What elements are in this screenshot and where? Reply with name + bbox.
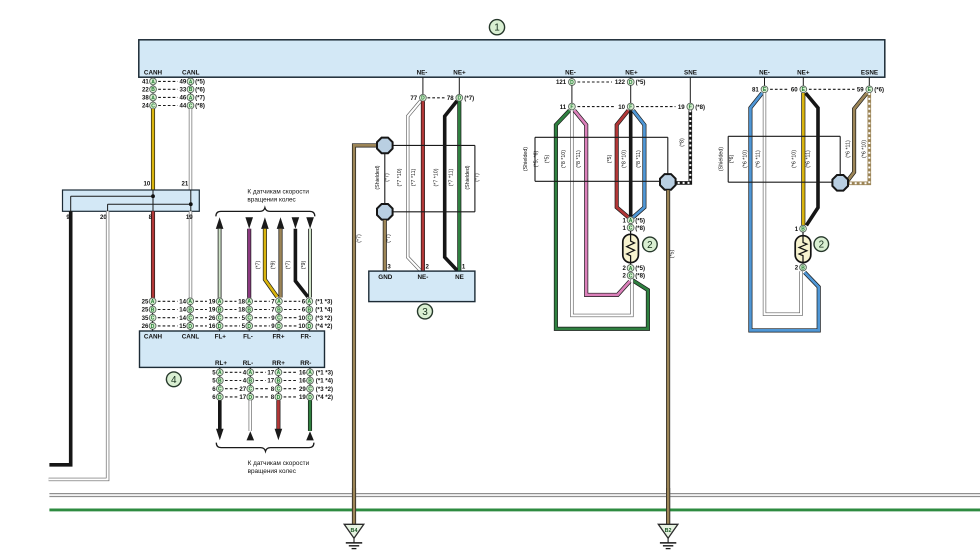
svg-text:(*7): (*7) (286, 261, 292, 270)
svg-text:FL+: FL+ (215, 334, 227, 341)
wire RL- white (to wheel speed sensor) (247, 400, 255, 440)
svg-text:B: B (247, 307, 251, 313)
svg-text:17: 17 (267, 378, 274, 385)
svg-text:(*7): (*7) (356, 234, 362, 243)
wire NE- blue (*6 *10) loop to sensor pin2 (750, 93, 818, 330)
svg-text:B: B (801, 227, 805, 233)
svg-text:(*5): (*5) (635, 217, 645, 224)
svg-text:D: D (277, 324, 281, 330)
svg-text:C: C (247, 316, 251, 322)
svg-text:10: 10 (618, 104, 625, 111)
svg-text:GND: GND (378, 274, 392, 281)
svg-text:C: C (151, 103, 155, 109)
svg-text:(*5): (*5) (670, 250, 676, 259)
svg-text:A: A (218, 370, 222, 376)
svg-text:A: A (307, 299, 311, 305)
svg-text:81: 81 (752, 87, 759, 94)
svg-text:2: 2 (647, 240, 652, 251)
ground B2 (658, 524, 678, 538)
svg-text:35: 35 (142, 315, 149, 322)
svg-text:C: C (307, 316, 311, 322)
svg-text:CANL: CANL (182, 70, 200, 77)
svg-text:D: D (248, 395, 252, 401)
svg-text:NE-: NE- (417, 274, 428, 281)
svg-text:(*5): (*5) (607, 155, 613, 164)
svg-text:A: A (247, 299, 251, 305)
svg-text:NE+: NE+ (453, 70, 466, 77)
svg-text:16: 16 (209, 323, 216, 330)
wire FL+ light green (to wheel speed sensor) (216, 217, 224, 298)
svg-text:(*8 *10): (*8 *10) (621, 150, 627, 168)
svg-text:D: D (629, 80, 633, 86)
svg-text:A: A (218, 299, 222, 305)
ABS skid control ECU box component 4 (140, 331, 325, 367)
wire FR+ yellow (*7) (255, 217, 277, 297)
svg-text:4: 4 (171, 375, 177, 386)
svg-text:(*5, *6): (*5, *6) (534, 151, 540, 168)
svg-text:21: 21 (182, 180, 189, 187)
svg-text:(*1 *4): (*1 *4) (315, 307, 332, 314)
svg-text:A: A (277, 299, 281, 305)
text to wheel speed sensors (top) (247, 189, 309, 204)
brace to wheel speed sensors (bottom) (216, 443, 314, 452)
svg-text:2: 2 (819, 240, 824, 251)
wire ESNE brown (*6 *11) (846, 93, 867, 182)
svg-text:B: B (188, 307, 192, 313)
svg-text:вращения колес: вращения колес (248, 468, 297, 475)
wire NE- white (*7 *10) (408, 101, 421, 271)
callout 4 (ABS actuator) (166, 372, 181, 387)
svg-text:19: 19 (209, 299, 216, 306)
svg-text:NE: NE (455, 274, 464, 281)
svg-text:27: 27 (239, 386, 246, 393)
svg-text:C: C (629, 226, 633, 232)
svg-text:RR+: RR+ (272, 360, 285, 367)
svg-text:(*1 *3): (*1 *3) (316, 370, 333, 377)
svg-text:A: A (188, 299, 192, 305)
svg-text:(*7): (*7) (474, 173, 480, 182)
svg-text:(*3 *2): (*3 *2) (315, 315, 332, 322)
svg-text:B: B (248, 378, 252, 384)
wire RL+ black (to wheel speed sensor) (216, 400, 224, 440)
svg-text:14: 14 (179, 299, 186, 306)
resistor VVT/cam sensor component 2 right (795, 232, 811, 264)
svg-text:NE+: NE+ (625, 70, 638, 77)
svg-text:B: B (189, 87, 193, 93)
node pins 11(F) / 10(F) / 19(F) (560, 77, 705, 111)
svg-text:C: C (308, 387, 312, 393)
svg-text:44: 44 (180, 103, 187, 110)
wire pin8 red to ABS CANH (151, 211, 155, 298)
svg-text:ESNE: ESNE (861, 70, 878, 77)
svg-text:D: D (218, 395, 222, 401)
svg-text:F: F (629, 105, 632, 111)
svg-text:16: 16 (299, 370, 306, 377)
svg-text:14: 14 (179, 315, 186, 322)
svg-text:FR-: FR- (301, 334, 312, 341)
svg-text:C: C (248, 387, 252, 393)
svg-text:59: 59 (857, 87, 864, 94)
shield connector octagon group3 (832, 175, 848, 191)
svg-text:(*3 *2): (*3 *2) (316, 386, 333, 393)
svg-text:B: B (277, 378, 281, 384)
svg-text:(*8): (*8) (195, 103, 205, 110)
callout 2 (camshaft position sensor) (643, 237, 658, 252)
svg-text:B: B (218, 307, 222, 313)
svg-text:(*5): (*5) (635, 265, 645, 272)
svg-text:NE-: NE- (417, 70, 428, 77)
svg-text:NE-: NE- (565, 70, 576, 77)
svg-text:F: F (689, 105, 692, 111)
svg-text:(*7 *10): (*7 *10) (434, 168, 440, 186)
wire RR- green (to wheel speed sensor) (306, 400, 314, 440)
svg-text:(*7): (*7) (195, 95, 205, 102)
wire CANH yellow (151, 109, 155, 190)
svg-text:38: 38 (142, 95, 149, 102)
svg-text:1: 1 (494, 23, 500, 34)
svg-text:NE+: NE+ (797, 70, 810, 77)
svg-text:B2: B2 (665, 528, 672, 534)
svg-text:CANL: CANL (182, 334, 200, 341)
svg-text:77: 77 (410, 95, 417, 102)
svg-text:D: D (188, 324, 192, 330)
svg-text:D: D (308, 395, 312, 401)
svg-text:B: B (218, 378, 222, 384)
wire pin20 white to page left (49, 211, 108, 479)
svg-text:C: C (151, 316, 155, 322)
svg-text:A: A (308, 370, 312, 376)
wire SNE striped black/white (*8) (676, 110, 690, 183)
svg-text:SNE: SNE (684, 70, 697, 77)
camshaft position sensor pins 1(A)/1(C) (623, 217, 646, 232)
shield box around cam sensor wires (*5 *6) (535, 137, 668, 181)
wire NE- white (*8 *10) loop to cam sensor pin2 (572, 110, 632, 315)
brace to wheel speed sensors (top) (216, 208, 315, 217)
shield labels group3 (719, 147, 812, 171)
svg-text:22: 22 (142, 87, 149, 94)
svg-text:49: 49 (180, 79, 187, 86)
svg-text:C: C (218, 387, 222, 393)
svg-text:(*8): (*8) (695, 104, 705, 111)
svg-text:19: 19 (186, 214, 193, 221)
svg-text:(*7): (*7) (385, 173, 391, 182)
svg-text:17: 17 (239, 394, 246, 401)
svg-text:B: B (308, 378, 312, 384)
svg-text:18: 18 (238, 307, 245, 314)
svg-text:(*1 *4): (*1 *4) (316, 378, 333, 385)
svg-text:(Shielded): (Shielded) (375, 165, 381, 189)
svg-text:FR+: FR+ (272, 334, 284, 341)
svg-text:D: D (277, 395, 281, 401)
svg-text:9: 9 (66, 214, 70, 221)
crankshaft position sensor box component 3 (369, 264, 475, 302)
svg-text:A: A (189, 79, 193, 85)
svg-text:D: D (457, 96, 461, 102)
callout 3 (crankshaft position sensor) (418, 304, 433, 319)
svg-text:(*8): (*8) (635, 225, 645, 232)
svg-text:26: 26 (142, 323, 149, 330)
svg-text:(*5): (*5) (636, 79, 646, 86)
wire shield drain brown to ground B4 (*7) (354, 145, 378, 524)
svg-text:(*6 *11): (*6 *11) (755, 150, 761, 168)
svg-text:вращения колес: вращения колес (247, 196, 296, 203)
node CANH pins 41/22/38/24 and CANL pins 49/33/46/44 (142, 77, 205, 110)
svg-text:A: A (151, 95, 155, 101)
svg-text:D: D (570, 80, 574, 86)
svg-text:C: C (277, 316, 281, 322)
svg-text:D: D (247, 324, 251, 330)
svg-text:(*6 *11): (*6 *11) (805, 150, 811, 168)
svg-text:(*8 *10): (*8 *10) (561, 150, 567, 168)
svg-text:(*1 *3): (*1 *3) (315, 299, 332, 306)
camshaft position sensor pins 2(A)/2(C) (623, 265, 646, 280)
svg-text:К датчикам скорости: К датчикам скорости (247, 189, 309, 196)
svg-text:(*8 *11): (*8 *11) (636, 150, 642, 168)
wire pin9 black to page left (49, 211, 70, 464)
svg-text:29: 29 (299, 386, 306, 393)
svg-text:3: 3 (422, 307, 428, 318)
shield connector octagon group2 (660, 174, 676, 190)
svg-text:К датчикам скорости: К датчикам скорости (248, 460, 310, 467)
node pins 77(D) / 78(D) (410, 77, 474, 102)
svg-text:D: D (421, 96, 425, 102)
svg-text:10: 10 (298, 323, 305, 330)
svg-text:C: C (189, 103, 193, 109)
svg-text:(Shielded): (Shielded) (719, 147, 725, 171)
ground bus green line (49, 508, 980, 511)
ground bus gray double line (49, 494, 980, 497)
node pins 121(D) / 122(D) (556, 77, 645, 86)
svg-text:17: 17 (267, 370, 274, 377)
wire NE+ black (*6 *11) (806, 93, 818, 225)
wire NE- white (*6 *11) loop to sensor pin2 (765, 93, 802, 314)
svg-text:B4: B4 (351, 528, 358, 534)
svg-text:16: 16 (299, 378, 306, 385)
wire NE+ red (*5) (617, 110, 629, 217)
svg-text:19: 19 (209, 307, 216, 314)
wire NE+ black (*8 *10) (629, 110, 633, 217)
svg-text:(*9): (*9) (271, 261, 277, 270)
wire NE+ blue (*8 *11) (633, 110, 644, 217)
svg-text:D: D (307, 324, 311, 330)
ground B4 (344, 524, 364, 538)
resistor camshaft position sensor component 2 (623, 231, 639, 265)
svg-text:(*6): (*6) (874, 87, 884, 94)
svg-text:(*7): (*7) (386, 234, 392, 243)
svg-text:C: C (277, 387, 281, 393)
svg-text:(*5): (*5) (195, 79, 205, 86)
svg-text:41: 41 (142, 79, 149, 86)
svg-text:20: 20 (100, 214, 107, 221)
svg-text:46: 46 (180, 95, 187, 102)
svg-text:D: D (151, 324, 155, 330)
svg-text:A: A (151, 299, 155, 305)
wire NE- pink (*8 *11) loop to cam sensor pin2 (574, 110, 630, 295)
svg-text:C: C (218, 316, 222, 322)
ECM pin name labels (144, 70, 878, 77)
svg-text:C: C (629, 273, 633, 279)
svg-text:B: B (151, 87, 155, 93)
node pins 81(E) / 60(E) / 59(E) (752, 77, 884, 93)
wire FR- black (*7) (286, 217, 308, 297)
svg-text:C: C (188, 316, 192, 322)
callout 1 (ECM) (489, 20, 504, 35)
svg-text:26: 26 (209, 315, 216, 322)
svg-text:A: A (277, 370, 281, 376)
svg-text:A: A (629, 266, 633, 272)
svg-text:(*6 *11): (*6 *11) (846, 140, 852, 158)
junction pin number labels (66, 180, 193, 221)
svg-text:(*4 *2): (*4 *2) (315, 323, 332, 330)
svg-text:RL-: RL- (243, 360, 254, 367)
svg-text:(*6 *10): (*6 *10) (792, 150, 798, 168)
ABS box pin name labels (144, 334, 312, 367)
svg-text:11: 11 (560, 104, 567, 111)
ECM (engine control module) connector bar, component 1 (139, 40, 885, 77)
svg-text:121: 121 (556, 79, 567, 86)
svg-text:FL-: FL- (243, 334, 253, 341)
svg-text:(*8 *11): (*8 *11) (576, 150, 582, 168)
svg-text:B: B (801, 265, 805, 271)
svg-text:18: 18 (238, 299, 245, 306)
wire NE- red (*7 *11) (421, 101, 425, 271)
svg-text:14: 14 (179, 307, 186, 314)
wire NE+ green (*7 *11) (457, 101, 461, 271)
svg-text:(*6): (*6) (729, 155, 735, 164)
svg-text:122: 122 (615, 79, 626, 86)
wire ESNE striped brown/white (*6 *10) (849, 93, 870, 183)
wire NE+ black (*7 *10) (445, 101, 458, 271)
wire FL- purple (to wheel speed sensor) (245, 217, 253, 298)
shield connector octagon bottom (377, 204, 393, 220)
wire NE+ yellow (*6 *10) (801, 93, 805, 225)
svg-text:(*7): (*7) (464, 95, 474, 102)
svg-text:(*4 *2): (*4 *2) (316, 394, 333, 401)
svg-text:25: 25 (142, 299, 149, 306)
svg-text:(*6): (*6) (195, 87, 205, 94)
svg-text:78: 78 (447, 95, 454, 102)
svg-text:15: 15 (179, 323, 186, 330)
node junction CANH (151, 194, 155, 198)
svg-text:NE-: NE- (759, 70, 770, 77)
svg-text:B: B (277, 307, 281, 313)
wire FR+ brown (*9) (271, 217, 285, 297)
svg-text:24: 24 (142, 103, 149, 110)
svg-text:19: 19 (299, 394, 306, 401)
svg-text:A: A (151, 79, 155, 85)
svg-text:10: 10 (298, 315, 305, 322)
wire brown over bus B2 (666, 488, 670, 524)
wire CANL white (189, 109, 192, 190)
svg-text:(*7 *10): (*7 *10) (397, 168, 403, 186)
svg-text:A: A (629, 218, 633, 224)
svg-text:A: A (248, 370, 252, 376)
shield box around NE wires (*7) (385, 145, 475, 211)
wire NE- green (*5) loop to cam sensor pin2 (556, 110, 648, 328)
svg-text:B: B (307, 307, 311, 313)
callout 2 (sensor right) (814, 237, 829, 252)
node ABS upper pin rows (142, 298, 333, 331)
svg-text:B: B (151, 307, 155, 313)
svg-text:(*7 *11): (*7 *11) (449, 168, 455, 186)
svg-text:25: 25 (142, 307, 149, 314)
svg-text:19: 19 (678, 104, 685, 111)
svg-text:CANH: CANH (144, 334, 163, 341)
wire RR+ red (to wheel speed sensor) (275, 400, 283, 440)
svg-text:(Shielded): (Shielded) (523, 147, 529, 171)
shield labels group1 (375, 165, 481, 189)
sensor pin 1(B) right (795, 225, 807, 233)
svg-text:(*7 *11): (*7 *11) (411, 168, 417, 186)
svg-text:D: D (218, 324, 222, 330)
svg-text:RL+: RL+ (215, 360, 227, 367)
svg-text:33: 33 (180, 87, 187, 94)
wire junction internal links (71, 190, 191, 211)
wire FR- light green (*9) (301, 217, 314, 297)
wire GND brown to crank sensor (*7) (385, 220, 392, 271)
svg-text:10: 10 (144, 180, 151, 187)
svg-text:F: F (570, 105, 573, 111)
shield connector octagon top (377, 138, 393, 154)
svg-text:60: 60 (791, 87, 798, 94)
svg-text:RR-: RR- (300, 360, 311, 367)
shield box around sensor wires (*6) (728, 136, 840, 182)
svg-text:CANH: CANH (144, 70, 163, 77)
junction connector block (63, 190, 200, 211)
svg-text:(*5): (*5) (545, 155, 551, 164)
svg-text:(*7): (*7) (255, 261, 261, 270)
node junction CANL (189, 202, 193, 206)
svg-text:(*9): (*9) (301, 261, 307, 270)
wire brown over bus B4 (352, 488, 356, 524)
svg-text:A: A (189, 95, 193, 101)
svg-text:(*6 *10): (*6 *10) (743, 150, 749, 168)
node ABS lower pin rows (212, 367, 333, 401)
wire shield drain brown to ground B2 (*5) (668, 190, 675, 524)
wire pin19 white to ABS CANL (189, 211, 192, 298)
svg-text:(*6 *10): (*6 *10) (861, 140, 867, 158)
svg-text:(*8): (*8) (635, 273, 645, 280)
shield labels group2 (523, 147, 642, 171)
text to wheel speed sensors (bottom) (248, 460, 310, 475)
sensor pin 2(B) right (795, 264, 807, 272)
svg-text:(Shielded): (Shielded) (465, 165, 471, 189)
svg-text:(*8): (*8) (680, 138, 686, 147)
